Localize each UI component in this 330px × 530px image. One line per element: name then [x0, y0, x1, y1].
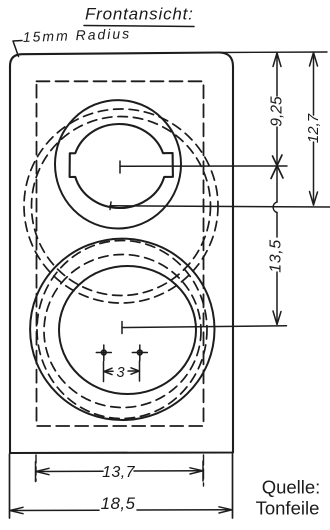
cabinet edge extension left	[9, 454, 11, 518]
svg-text:12,7: 12,7	[305, 113, 322, 143]
vertical dimension line 12,7	[310, 53, 318, 206]
hole spacing dimension lines and arrows	[104, 361, 140, 382]
extension line below dashed rect left	[35, 455, 37, 481]
svg-text:9,25: 9,25	[269, 96, 286, 127]
dimension 13,7	[36, 461, 204, 482]
front panel dashed cutline rectangle	[37, 81, 204, 426]
tweeter faceplate circle with mounting ears	[70, 124, 173, 208]
tweeter outer flange circle	[55, 100, 181, 228]
mounting hole left (crosshair)	[96, 345, 111, 361]
woofer cutout dashed circle (outer)	[37, 241, 207, 419]
radius leader arrow	[13, 41, 22, 57]
cabinet outline (front baffle, rounded top corners)	[10, 53, 234, 454]
mounting hole right (crosshair)	[132, 345, 147, 361]
cabinet edge extension right	[232, 454, 234, 518]
svg-text:Tonfeile: Tonfeile	[256, 498, 320, 519]
woofer center leader line	[122, 322, 287, 334]
tweeter center leader line	[120, 161, 287, 173]
tweeter rear cutout dashed circle (inner)	[32, 117, 211, 296]
dimension 18,5	[10, 507, 232, 514]
tweeter bottom leader line	[110, 202, 330, 210]
top edge extension line	[220, 51, 327, 54]
svg-text:13,7: 13,7	[102, 464, 135, 481]
woofer outer frame circle	[30, 239, 214, 420]
svg-text:13,5: 13,5	[268, 239, 285, 273]
svg-text:18,5: 18,5	[101, 494, 136, 513]
heading underline	[84, 26, 194, 27]
vertical dimension line 9,25 / 13,5	[273, 53, 281, 325]
svg-text:Quelle:: Quelle:	[262, 477, 321, 498]
extension line below dashed rect right	[203, 455, 205, 486]
woofer cone inner circle	[59, 266, 196, 394]
svg-text:Frontansicht:: Frontansicht:	[85, 5, 194, 24]
dimension terminator X on tweeter center	[271, 155, 283, 179]
woofer cutout dashed circle (inner)	[44, 255, 201, 408]
tweeter rear cutout dashed circle (outer)	[24, 109, 218, 303]
svg-text:3: 3	[116, 365, 124, 381]
